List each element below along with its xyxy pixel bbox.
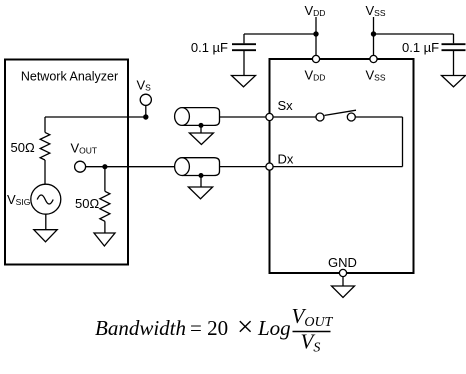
wire Sx to switch [270, 116, 317, 118]
junction VS node [143, 114, 148, 119]
wire VS stem [145, 105, 147, 117]
svg-text:Log: Log [257, 316, 291, 340]
ground below C2 [442, 76, 466, 87]
wire VSS to right cap [374, 33, 454, 35]
formula Bandwidth = 20 x Log VOUT/VS [95, 304, 334, 356]
svg-text:0.1 µF: 0.1 µF [191, 40, 228, 55]
ground below VSIG [34, 230, 57, 242]
wire switch to right side [355, 116, 402, 118]
switch S1 pole contact [316, 113, 324, 121]
wire VDD to left cap [244, 33, 316, 35]
junction VDD [313, 31, 318, 36]
wire R1 vertical top [44, 117, 46, 132]
wire right vertical [402, 117, 404, 167]
wire coax2 to Dx [220, 166, 270, 168]
wire coax1 to Sx [220, 116, 270, 118]
junction VOUT node [102, 164, 107, 169]
wire GND stem [342, 277, 344, 286]
wire R2 to ground [104, 221, 106, 233]
device under test box U1 [270, 59, 414, 273]
coax cable 2 body [175, 158, 220, 176]
svg-text:Bandwidth: Bandwidth [95, 316, 186, 340]
resistor R1 50ohm [40, 132, 50, 160]
junction VSS [371, 31, 376, 36]
wire R1 to VSIG [44, 160, 46, 184]
terminal VOUT circle [75, 161, 86, 172]
wire coax1 shield stem [200, 125, 202, 133]
svg-text:×: × [237, 311, 253, 343]
wire VSIG to ground [45, 214, 47, 230]
junction coax2 shield [199, 173, 204, 178]
wire VDD vertical [315, 17, 317, 59]
svg-text:Network Analyzer: Network Analyzer [21, 70, 118, 84]
ground below GND pin [332, 286, 355, 298]
switch S1 blade [325, 110, 356, 115]
terminal VS circle [140, 94, 151, 105]
junction coax1 shield [199, 123, 204, 128]
pin GND [339, 269, 346, 276]
svg-text:GND: GND [328, 255, 357, 270]
wire junction to R2 [104, 167, 106, 192]
ground below coax2 [188, 187, 212, 199]
capacitor C1 0.1uF left [232, 34, 256, 76]
wire coax2 shield stem [200, 176, 202, 188]
pin VSS [370, 55, 377, 62]
svg-text:Sx: Sx [278, 98, 294, 113]
wire VOUT to coax2 [86, 166, 175, 168]
svg-text:50Ω: 50Ω [11, 140, 35, 155]
ground below R2 [94, 233, 115, 246]
box Network Analyzer [5, 60, 128, 265]
ground below C1 [232, 76, 256, 87]
wire R1 top to VS node [45, 116, 146, 118]
wire VSS vertical [373, 17, 375, 59]
pin Sx [266, 113, 273, 120]
svg-text:0.1 µF: 0.1 µF [402, 40, 439, 55]
pin VDD [312, 55, 319, 62]
switch S1 throw contact [347, 113, 355, 121]
resistor R2 50ohm [100, 191, 110, 221]
wire Dx horizontal [270, 166, 403, 168]
svg-text:Dx: Dx [278, 152, 294, 167]
coax cable 1 body [175, 108, 220, 126]
svg-text:= 20: = 20 [190, 316, 228, 340]
svg-text:50Ω: 50Ω [75, 196, 99, 211]
ground below coax1 [189, 133, 213, 145]
capacitor C2 0.1uF right [442, 34, 466, 76]
pin Dx [266, 163, 273, 170]
source VSIG sine generator [31, 184, 61, 214]
